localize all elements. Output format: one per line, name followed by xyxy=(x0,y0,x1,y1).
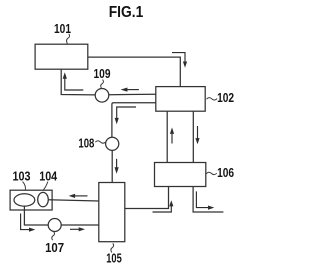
svg-text:106: 106 xyxy=(217,166,234,180)
flow arrow left toward 104 xyxy=(74,195,88,197)
wire circle 107 to 105 left xyxy=(61,224,99,226)
svg-text:109: 109 xyxy=(94,67,111,81)
flow arrow down in right vertical 102-106 xyxy=(197,126,199,139)
leader squiggle 107 xyxy=(52,232,55,240)
flow arrow up into 101 bottom xyxy=(65,79,84,91)
wire 105 right to 106 bottom xyxy=(125,187,169,209)
leader curve 103 xyxy=(23,182,26,191)
wire circle 109 to 102 left xyxy=(109,93,156,95)
wire circle 108 bottom to 105 top xyxy=(111,150,113,182)
flow arrow left toward 109 xyxy=(126,89,139,91)
flow arrow down into 102 top xyxy=(172,53,185,62)
flow arrow up in left vertical 102-106 xyxy=(171,134,173,144)
box 106 xyxy=(155,163,206,187)
svg-text:108: 108 xyxy=(78,137,94,151)
svg-text:107: 107 xyxy=(45,241,64,255)
leader squiggle 109 xyxy=(101,80,104,89)
leader squiggle 101 xyxy=(67,34,70,44)
leader squiggle 105 xyxy=(111,243,114,252)
wire 106 bottom outlet down right open end xyxy=(193,187,223,213)
flow arrow down into 105 top xyxy=(116,159,118,168)
wire ellipse 104 to 105 left xyxy=(48,200,99,201)
wire 102 bottom to 106 top right vertical xyxy=(192,111,194,162)
circle 109 xyxy=(95,89,109,103)
wire 101 bottom to circle 109 xyxy=(61,69,95,95)
wire 102 bottom to 106 top left vertical xyxy=(166,111,168,162)
leader tilde 102 xyxy=(207,98,218,100)
wire 102 left to circle 108 top xyxy=(112,103,156,138)
leader curve 104 xyxy=(43,182,48,191)
flow arrow down-right from 103 xyxy=(21,214,31,230)
box 102 xyxy=(156,87,205,112)
box 105 xyxy=(99,183,125,242)
box 101 xyxy=(35,44,88,69)
circle 107 xyxy=(48,219,61,232)
flow arrow right from 107 xyxy=(70,228,80,230)
flow arrow left-down toward 108 xyxy=(117,107,136,119)
flow arrow right at 106 outlet xyxy=(196,191,209,207)
svg-text:103: 103 xyxy=(13,170,31,184)
svg-text:FIG.1: FIG.1 xyxy=(109,4,144,21)
wire ellipse 103 down to circle 107 xyxy=(24,206,48,226)
flow arrow up into 106 bottom xyxy=(153,206,172,212)
leader tilde 106 xyxy=(206,172,217,174)
wire 101 right to 102 top xyxy=(88,57,181,87)
rect 103/104 housing xyxy=(10,190,52,210)
leader tilde 108 xyxy=(95,141,105,143)
circle 108 xyxy=(106,137,119,150)
svg-text:104: 104 xyxy=(39,170,57,184)
svg-text:102: 102 xyxy=(217,91,234,105)
ellipse 104 xyxy=(38,192,49,206)
svg-text:101: 101 xyxy=(54,22,71,36)
ellipse 103 xyxy=(14,194,35,206)
svg-text:105: 105 xyxy=(106,252,122,265)
